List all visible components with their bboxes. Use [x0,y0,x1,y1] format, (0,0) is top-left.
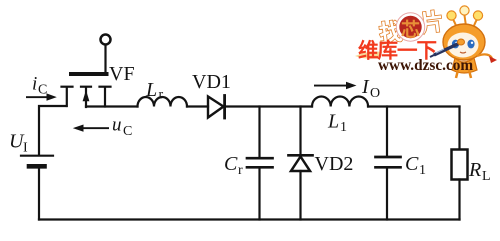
svg-text:C: C [405,153,419,175]
svg-text:R: R [468,159,481,181]
svg-text:VF: VF [109,63,135,85]
svg-text:r: r [238,163,243,178]
svg-text:O: O [370,86,380,101]
svg-text:1: 1 [340,120,347,135]
svg-text:r: r [159,88,164,103]
svg-text:I: I [23,141,28,156]
svg-text:C: C [38,83,47,98]
svg-text:u: u [112,115,122,136]
svg-text:VD2: VD2 [315,153,354,175]
svg-text:L: L [482,169,491,184]
svg-text:C: C [123,124,132,139]
svg-text:1: 1 [419,163,426,178]
svg-text:VD1: VD1 [192,71,231,93]
svg-text:C: C [224,153,238,175]
svg-text:芯: 芯 [401,18,420,41]
svg-text:L: L [145,79,157,101]
svg-text:I: I [361,76,370,98]
svg-text:i: i [32,74,37,95]
svg-text:www.dzsc.com: www.dzsc.com [378,57,473,74]
svg-text:L: L [327,111,339,133]
